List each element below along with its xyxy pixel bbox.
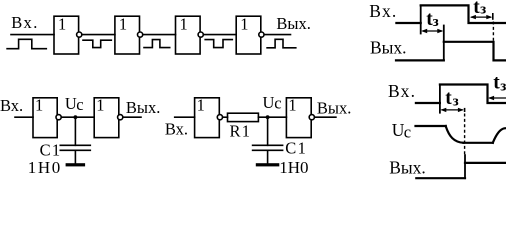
junction dot node Uc: [74, 115, 78, 119]
svg-text:1: 1: [288, 96, 296, 115]
wire node Uc down to C1: [74, 117, 76, 145]
inversion bubble U1: [77, 32, 82, 37]
wire Uc discharge curve: [446, 126, 464, 143]
wire U6 out: [119, 116, 141, 118]
wire output high pulse: [444, 42, 506, 61]
svg-text:з: з: [433, 14, 439, 30]
svg-text:1: 1: [197, 96, 205, 115]
tick end bar (diagram 1): [492, 13, 494, 20]
inversion bubble U6: [118, 115, 123, 120]
inverter U4: [236, 16, 261, 54]
dimension arrow t3 first (diagram 2): [442, 109, 463, 111]
wire C1 to ground: [74, 150, 76, 163]
svg-text:с: с: [274, 93, 281, 112]
wire Uc recharge curve: [493, 128, 506, 143]
wire input rising edge extended: [420, 5, 422, 33]
svg-text:1: 1: [240, 15, 248, 34]
svg-text:1: 1: [58, 15, 66, 34]
inverted pulse icon after U1: [83, 40, 111, 47]
svg-text:R1: R1: [230, 122, 252, 141]
wire U7 out to R1: [219, 116, 227, 118]
inverter U1: [54, 16, 79, 54]
wire U1 out to U2: [79, 34, 115, 36]
wire output rising edge (diagram 2): [464, 155, 466, 178]
input pulse waveform icon: [7, 39, 46, 48]
wire output high segment (diagram 2): [465, 162, 506, 164]
svg-text:Вых.: Вых.: [389, 158, 426, 178]
wire Uc high segment: [416, 125, 446, 127]
svg-text:t: t: [445, 88, 452, 109]
wire Uc low segment: [464, 142, 493, 144]
wire R1 to U8 (node Uc): [258, 116, 286, 118]
dashed projection line (diagram 1): [492, 22, 494, 42]
inversion bubble U4: [259, 32, 264, 37]
svg-text:Вых.: Вых.: [317, 98, 351, 117]
inversion bubble U2: [138, 32, 143, 37]
svg-text:1Н0: 1Н0: [28, 158, 62, 177]
inverted pulse icon after U3: [205, 40, 232, 48]
svg-text:U: U: [65, 94, 77, 113]
wire input low segment (diagram 2): [416, 102, 440, 104]
wire U8 out: [311, 116, 336, 118]
svg-text:Вх.: Вх.: [388, 81, 416, 101]
wire node Uc down to C1 (circuit 2): [267, 117, 269, 145]
svg-text:C1: C1: [285, 138, 307, 157]
junction dot node Uc (circuit 2): [266, 115, 270, 119]
ground: [66, 163, 86, 166]
svg-text:Вх.: Вх.: [11, 13, 39, 32]
wire input rising edge extended (diagram 2): [439, 85, 441, 113]
svg-text:Вх.: Вх.: [165, 120, 188, 139]
inverter U2: [115, 16, 140, 54]
inversion bubble U8: [309, 115, 314, 120]
ground (circuit 2): [256, 163, 279, 166]
inverter U8: [286, 98, 311, 138]
tick end bar (diagram 2): [464, 108, 466, 112]
svg-text:с: с: [76, 95, 83, 114]
wire output low segment (diagram 2): [416, 177, 465, 179]
wire input high pulse (diagram 2): [440, 85, 506, 104]
inverter U7: [195, 98, 220, 138]
svg-text:1: 1: [119, 15, 127, 34]
svg-text:1: 1: [96, 96, 104, 115]
wire output low segment: [396, 59, 444, 61]
wire input to U1: [11, 34, 54, 36]
inversion bubble U5: [56, 115, 61, 120]
svg-text:Вых.: Вых.: [276, 14, 310, 33]
dimension arrow t3 second (diagram 1): [471, 16, 491, 18]
svg-text:з: з: [480, 2, 486, 18]
inverter U5: [33, 98, 57, 138]
pulse icon after U2: [144, 40, 170, 48]
svg-text:з: з: [500, 79, 506, 95]
svg-text:Вых.: Вых.: [370, 37, 407, 57]
svg-text:Вых.: Вых.: [126, 98, 160, 117]
wire output rising edge extended: [443, 26, 445, 61]
svg-text:1: 1: [180, 15, 188, 34]
inverter U6: [94, 98, 119, 138]
dimension arrow t3 second (diagram 2): [489, 97, 506, 99]
timing diagram 1 (delay line): [369, 1, 506, 60]
wire input to U7: [175, 116, 195, 118]
svg-text:с: с: [404, 122, 411, 141]
dashed projection line (diagram 2): [464, 114, 466, 156]
resistor R1: [228, 113, 259, 121]
svg-text:Вх.: Вх.: [0, 96, 23, 115]
wire U2 out to U3: [140, 34, 176, 36]
wire input low segment: [396, 22, 420, 24]
wire U3 out to U4: [200, 34, 236, 36]
timing diagram 2 (RC delay): [388, 81, 506, 178]
svg-text:1Н0: 1Н0: [279, 158, 308, 177]
wire C1 to ground (circuit 2): [267, 150, 269, 163]
inverter U3: [176, 16, 201, 54]
wire input high pulse: [421, 5, 506, 23]
svg-text:з: з: [453, 93, 459, 109]
output pulse icon after U4: [267, 39, 296, 48]
svg-text:1: 1: [35, 96, 43, 115]
wire input to U5: [15, 116, 33, 118]
capacitor C1 (circuit 1): [60, 144, 90, 146]
inversion bubble U7: [217, 115, 222, 120]
svg-text:Вх.: Вх.: [369, 1, 397, 21]
wire U5 out to U6 (node Uc): [57, 116, 94, 118]
dimension arrow t3 first (diagram 1): [423, 30, 443, 32]
svg-text:U: U: [263, 93, 275, 112]
svg-text:t: t: [493, 73, 500, 94]
wire U4 out: [261, 34, 291, 36]
capacitor C1 (circuit 2): [253, 144, 283, 146]
inversion bubble U3: [198, 32, 203, 37]
